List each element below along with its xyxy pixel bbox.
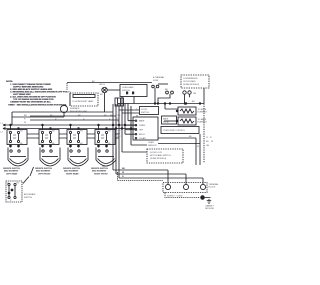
surface element right rear [68,148,88,167]
junction dots bus [112,124,114,126]
svg-text:L2: L2 [206,137,209,139]
svg-text:BAKE: BAKE [163,118,169,121]
svg-text:GN: GN [193,93,197,95]
svg-text:OVEN LAMP: OVEN LAMP [122,86,134,89]
svg-text:AND ELEMENT: AND ELEMENT [36,170,51,173]
svg-text:INFINITE SWITCH: INFINITE SWITCH [91,168,108,170]
slash marks [30,167,34,176]
svg-text:BAKE: BAKE [139,120,145,123]
svg-text:(SOME MODELS): (SOME MODELS) [183,84,200,86]
right cluster vertical wires [112,104,114,170]
svg-text:H1: H1 [108,131,111,133]
svg-text:BK: BK [100,94,103,96]
svg-text:CABINET MUST BE GROUNDED AT AL: CABINET MUST BE GROUNDED AT ALL [10,101,51,104]
receptacle outlet [183,91,186,94]
alternate switch dashed box [6,181,22,202]
supply wires [113,170,168,184]
staircase wires [119,109,140,111]
svg-text:AND ELEMENT: AND ELEMENT [4,170,19,173]
svg-text:BLOCK: BLOCK [209,187,216,189]
svg-text:GY: GY [118,133,122,135]
caption left rear [3,168,21,176]
svg-text:OVEN: OVEN [148,142,154,144]
caption left front [35,168,53,176]
svg-text:SURFACE: SURFACE [70,107,80,110]
svg-text:BK: BK [192,101,195,103]
oven control box [161,127,199,134]
infinite switch left front [39,124,67,147]
svg-text:LEFT REAR: LEFT REAR [6,173,18,176]
svg-text:(SOME MODELS): (SOME MODELS) [150,158,167,160]
infinite switch right rear [67,124,95,147]
gn-yl label [102,166,109,168]
svg-text:AND ELEMENT: AND ELEMENT [92,170,107,173]
caption right rear [63,168,81,176]
infinite switch left rear [7,124,39,147]
svg-text:GN/YL: GN/YL [102,166,109,168]
bake element box [178,117,196,125]
door switch box [140,107,159,115]
svg-text:GROUND: GROUND [205,208,214,210]
fluorescent lamp dashed box [70,93,98,106]
svg-text:W: W [211,141,213,143]
svg-text:NOTE:: NOTE: [6,81,13,83]
svg-text:H1: H1 [17,183,20,185]
svg-text:CLEAN: CLEAN [139,137,146,140]
terminal N [183,184,188,189]
svg-text:INFINITE SWITCH: INFINITE SWITCH [35,168,52,170]
wire console drop [66,83,68,90]
svg-text:OVEN TEMP CONTROL: OVEN TEMP CONTROL [163,130,186,132]
svg-text:FUSE: FUSE [153,80,159,82]
thermal fuse [153,76,168,91]
svg-text:INFINITE SWITCH: INFINITE SWITCH [63,168,80,170]
svg-text:BU: BU [118,136,121,138]
svg-text:R: R [210,137,212,139]
svg-text:ELEMENT: ELEMENT [198,122,208,124]
svg-text:ALTERNATE: ALTERNATE [24,193,36,196]
svg-text:W: W [24,122,26,124]
svg-text:INFINITE SWITCH: INFINITE SWITCH [3,168,20,170]
svg-text:OR: OR [118,130,122,132]
connector block [115,98,124,106]
svg-text:RIGHT FRONT: RIGHT FRONT [94,174,108,176]
svg-text:GN: GN [206,145,210,147]
svg-text:SENSOR: SENSOR [148,145,157,147]
svg-text:H1: H1 [52,131,55,133]
svg-text:FLUORESCENT LAMP: FLUORESCENT LAMP [73,100,95,103]
svg-text:W: W [118,121,120,123]
svg-text:A THERMAL: A THERMAL [153,76,165,79]
svg-text:TIMES · SEE INSTALLATION INSTR: TIMES · SEE INSTALLATION INSTRUCTIONS FO… [8,104,67,107]
svg-text:BK: BK [206,141,209,143]
supply cord label [167,196,183,198]
svg-text:R: R [24,119,26,121]
caption right front [91,168,109,176]
notes text block [6,81,68,107]
ground symbol [205,198,212,204]
svg-text:LEFT FRONT: LEFT FRONT [38,174,51,176]
svg-text:BK: BK [118,115,121,117]
svg-text:W: W [122,172,124,174]
fluorescent lamp tube [73,95,95,98]
convenience outlet dashed box [181,75,209,88]
svg-text:SWITCH: SWITCH [141,112,149,114]
svg-text:DOOR: DOOR [141,109,148,111]
notes text block thicken [6,81,68,107]
svg-text:CONVENIENCE: CONVENIENCE [183,78,198,80]
svg-text:SWITCH: SWITCH [24,197,32,199]
svg-text:INDICATOR LIGHT: INDICATOR LIGHT [70,110,88,113]
svg-text:BROIL: BROIL [139,134,146,136]
svg-text:OFF: OFF [139,130,144,132]
oven lamp switch box [120,85,147,97]
svg-text:DOOR LOCK: DOOR LOCK [150,152,163,154]
svg-text:ELEMENT: ELEMENT [198,112,208,114]
selector switch box [133,117,158,140]
wire mid right [158,138,196,165]
door lock dashed box [147,149,183,163]
wire top bus BK [67,82,152,84]
svg-text:TIMED: TIMED [139,125,146,127]
svg-text:OUTLET AND: OUTLET AND [183,80,196,83]
oven lamp wiring [158,94,170,104]
bus line L2 [3,128,137,130]
terminal L1 [165,184,170,189]
svg-text:H1: H1 [20,131,23,133]
svg-text:BK: BK [165,89,168,91]
surface element right front [96,148,116,167]
wire dashed drop [118,172,164,181]
svg-text:RIGHT REAR: RIGHT REAR [66,173,79,176]
bus line L1 [3,124,137,126]
svg-text:W: W [197,146,199,148]
lamp switch circle [60,105,67,112]
surface element left front [40,148,60,167]
right dashed enclosure edge [203,104,205,164]
terminal block dashed outline [163,183,207,193]
oven top wire [154,103,156,105]
infinite switch right front [95,124,119,147]
svg-text:H1: H1 [80,131,83,133]
wire label stack [118,115,122,138]
broil element box [178,107,196,115]
oven sensor label [148,142,157,147]
svg-text:L2: L2 [1,132,4,134]
ground lug [165,193,200,198]
svg-text:AND ELEMENT: AND ELEMENT [64,170,79,173]
buzzer GN/YL [99,84,106,86]
svg-text:RELAY: RELAY [163,121,170,124]
surface element left rear [8,148,28,167]
svg-text:GN/YL: GN/YL [99,84,106,86]
bake relay box [162,116,177,124]
terminal L2 [200,184,205,189]
main wire top horizontal [12,111,113,113]
bus arrows [3,124,6,130]
svg-text:MOTOR AND SWITCH: MOTOR AND SWITCH [150,154,171,157]
